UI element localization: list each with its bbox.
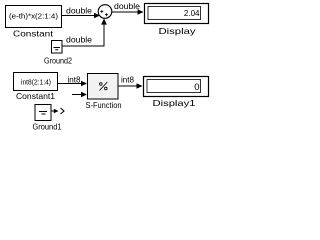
constant block Constant1 <box>14 73 58 91</box>
svg-text:double: double <box>66 36 93 45</box>
constant block Constant <box>6 6 62 28</box>
ground block Ground1 <box>35 105 51 121</box>
svg-text:int8: int8 <box>68 76 82 85</box>
ground block Ground2 <box>52 41 63 54</box>
svg-text:double: double <box>66 7 93 16</box>
svg-text:Display1: Display1 <box>153 98 196 108</box>
wire stub into S-Function input 2 <box>72 92 87 98</box>
svg-text:double: double <box>114 2 141 11</box>
svg-text:int8(2:1:4): int8(2:1:4) <box>21 78 51 87</box>
wire stub from Ground1 output with open arrow <box>51 108 64 114</box>
svg-text:S-Function: S-Function <box>86 100 122 110</box>
svg-text:Display: Display <box>159 26 197 36</box>
svg-text:int8: int8 <box>121 76 135 85</box>
svg-text:Ground2: Ground2 <box>44 56 72 66</box>
svg-text:2.04: 2.04 <box>184 9 200 18</box>
wire Sum to Display with label double <box>112 2 144 15</box>
wire Ground2 to Sum bottom port (up arrow) with label double <box>62 19 107 47</box>
svg-text:0: 0 <box>194 82 199 93</box>
svg-text:Constant1: Constant1 <box>16 91 55 101</box>
display block Display1 <box>144 77 209 97</box>
s-function block S-Function <box>88 74 119 100</box>
display block Display <box>145 4 209 24</box>
wire Constant1 to S-Function input 1 with label int8 <box>58 76 88 87</box>
wire S-Function to Display1 with label int8 <box>118 76 143 89</box>
svg-text:Ground1: Ground1 <box>33 122 62 132</box>
wire Constant to Sum with label double <box>62 7 100 19</box>
svg-text:(e-th)*x(2:1:4): (e-th)*x(2:1:4) <box>9 12 59 21</box>
sum block U1 (round sum) <box>98 5 112 19</box>
svg-text:Constant: Constant <box>13 29 54 39</box>
